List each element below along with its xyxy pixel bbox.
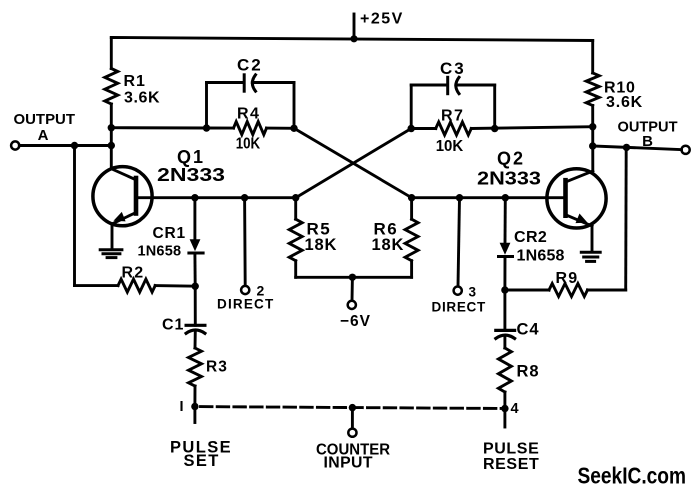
wire: pulse reset stub below node (503, 409, 506, 428)
svg-text:PULSE: PULSE (483, 441, 539, 458)
wire: C2 left lead (207, 81, 245, 84)
diode CR1 1N658 (189, 239, 203, 253)
svg-text:C2: C2 (237, 56, 263, 75)
svg-text:RESET: RESET (483, 456, 539, 473)
terminal COUNTER INPUT (348, 429, 356, 437)
label Q2 2N333 (477, 149, 541, 189)
svg-text:C1: C1 (162, 317, 184, 334)
svg-text:R3: R3 (206, 359, 228, 376)
wire: C3 right lead (456, 84, 495, 87)
ground under Q1 (100, 250, 122, 258)
wire: OUTPUT B lead (593, 146, 682, 150)
junction dot DIRECT 3 tap on Q2 base line (456, 194, 463, 201)
wire: OUTPUT A lead (19, 144, 111, 147)
capacitor C2 (244, 75, 255, 91)
wire: R2 left lead (75, 284, 119, 287)
svg-text:18K: 18K (372, 236, 405, 254)
wire: cross-coupling diagonal R4 node to Q2 base line (294, 128, 412, 197)
wire: C1 top lead (194, 286, 197, 325)
wire: -6V stub (351, 277, 354, 301)
label OUTPUT B (618, 118, 678, 150)
label 2 DIRECT (217, 283, 274, 312)
wire: R5 top lead (294, 198, 297, 220)
svg-text:OUTPUT: OUTPUT (14, 111, 76, 128)
wire: R7 right lead to R10 node (471, 127, 592, 129)
junction dot at +25V rail tap (350, 35, 357, 42)
svg-text:CR2: CR2 (514, 229, 547, 246)
wire: R4 left node up-leg (205, 83, 208, 129)
wire: link R1 node to R4 left node (111, 126, 206, 129)
label PULSE RESET (483, 441, 539, 474)
svg-text:1N658: 1N658 (517, 248, 565, 265)
wire: R4 left lead (207, 127, 234, 130)
junction dot COUNTER INPUT tap (349, 404, 356, 411)
wire: R3 bottom lead to pulse set node (193, 386, 196, 407)
label R3 (206, 359, 228, 376)
junction dot PULSE SET node 1 (191, 403, 198, 410)
junction dot output B / collector node (589, 142, 596, 149)
ground under Q2 (581, 252, 600, 261)
junction dot R4 right node (290, 125, 297, 132)
junction dot R7 left node (408, 125, 415, 132)
svg-text:C4: C4 (517, 321, 540, 339)
wire: DIRECT 3 down-leg (458, 198, 460, 286)
label -6V (340, 313, 371, 330)
svg-text:R7: R7 (441, 108, 464, 125)
svg-text:DIRECT: DIRECT (432, 300, 487, 315)
label terminal 4 (511, 401, 519, 417)
svg-text:C3: C3 (440, 59, 466, 78)
terminal OUTPUT B (682, 146, 690, 154)
label R2 (122, 265, 145, 282)
diode CR2 1N658 (499, 243, 513, 257)
resistor R9 (549, 284, 588, 297)
label C1 (162, 317, 184, 334)
svg-text:Q2: Q2 (497, 149, 525, 169)
resistor R7 (436, 122, 472, 135)
wire: C3 right node down-leg (493, 85, 496, 129)
wire: Q2 base line (412, 196, 566, 199)
wire: R5 bottom lead (294, 261, 297, 278)
label PULSE SET (170, 439, 232, 471)
wire: R10 bottom to Q2 collector (591, 106, 594, 171)
resistor R2 (118, 279, 155, 292)
wire: rail down to resistor R1 top (110, 38, 113, 69)
wire: cross-coupling diagonal R7 node to Q1 base line (296, 129, 412, 198)
wire: CR1 cathode lead (193, 253, 196, 286)
capacitor C3 (448, 77, 459, 93)
wire: R5-R6 bottom tie line (296, 276, 412, 279)
wire: Q1 emitter down-leg (111, 224, 114, 249)
junction dot output A / collector node (108, 142, 115, 149)
svg-text:R2: R2 (122, 265, 145, 282)
label COUNTER INPUT (316, 442, 391, 472)
terminal OUTPUT A (11, 141, 19, 149)
label R1 3.6K (124, 73, 161, 107)
junction dot CR2 / R9 / C4 node (501, 286, 508, 293)
wire: C1 bottom lead to R3 (194, 331, 197, 349)
svg-text:2N333: 2N333 (157, 165, 225, 185)
junction dot -6V tap (349, 274, 356, 281)
label CR1 1N658 (138, 225, 186, 260)
transistor Q1 (93, 167, 152, 226)
junction dot R10 bottom / feedback link (589, 123, 596, 130)
junction dot CR1 tap on Q1 base line (191, 194, 198, 201)
label +25V (360, 11, 404, 28)
label C2 (237, 56, 263, 75)
capacitor C4 (496, 330, 515, 338)
wire: C4 top lead (503, 290, 506, 330)
resistor R6 (405, 219, 418, 261)
wire: C2 right node down-leg (293, 83, 296, 129)
transistor Q2 (547, 169, 606, 228)
wire: R1 bottom to Q1 collector (110, 104, 113, 169)
svg-text:18K: 18K (305, 236, 338, 254)
junction dot R4 left node (203, 124, 210, 131)
label CR2 1N658 (514, 229, 565, 265)
junction dot DIRECT 2 tap on Q1 base line (241, 194, 248, 201)
resistor R10 (586, 73, 599, 106)
label R6 18K (372, 220, 405, 255)
wire: rail down to resistor R10 top (591, 41, 594, 74)
resistor R1 (105, 69, 118, 105)
svg-text:+25V: +25V (360, 11, 404, 28)
wire: +25V supply top rail (111, 38, 592, 41)
svg-text:R4: R4 (237, 106, 260, 123)
terminal DIRECT 2 (241, 286, 249, 294)
wire: CR1 anode lead (193, 198, 196, 240)
svg-text:10K: 10K (436, 138, 464, 155)
svg-text:R8: R8 (517, 363, 540, 381)
junction dot R1 bottom / feedback link (108, 124, 115, 131)
label terminal 1 (179, 399, 183, 415)
svg-text:1N658: 1N658 (138, 244, 182, 260)
wire: dashed trigger bus pulse set to pulse reset (201, 407, 505, 409)
wire: R9 left lead (505, 289, 549, 292)
svg-text:2N333: 2N333 (477, 169, 541, 189)
junction dot CR2 tap on Q2 base line (502, 194, 509, 201)
resistor R8 (498, 348, 511, 392)
junction dot R9 branch on output B line (623, 144, 630, 151)
capacitor C1 (186, 325, 205, 333)
junction dot Q1 base / R5 / diagonal node (292, 194, 299, 201)
junction dot R2 branch on output A line (71, 142, 78, 149)
wire: R7 left node up-leg (410, 85, 413, 129)
svg-text:10K: 10K (236, 136, 261, 153)
terminal -6V (348, 301, 356, 309)
svg-text:Q1: Q1 (177, 147, 205, 167)
terminal DIRECT 3 (454, 287, 462, 295)
wire: Q1 base line (136, 196, 296, 199)
label C4 (517, 321, 540, 339)
resistor R5 (289, 219, 302, 261)
wire: output B down-leg to R9 (624, 147, 627, 290)
label C3 (440, 59, 466, 78)
svg-text:I: I (179, 399, 183, 415)
svg-text:3: 3 (469, 285, 477, 300)
junction dot CR1 / R2 / C1 node (192, 283, 199, 290)
wire: R4 right lead (267, 127, 295, 130)
wire: CR2 anode lead (504, 198, 507, 243)
svg-text:DIRECT: DIRECT (217, 297, 274, 312)
label Q1 2N333 (157, 147, 225, 185)
label R10 3.6K (604, 80, 643, 112)
junction dot Q2 base / R6 / diagonal node (408, 194, 415, 201)
watermark SeekIC.com (578, 463, 687, 489)
label R5 18K (305, 220, 338, 255)
svg-text:SET: SET (184, 452, 220, 470)
svg-text:3.6K: 3.6K (124, 90, 160, 107)
label R9 (556, 270, 579, 287)
wire: C4 bottom lead to R8 (503, 336, 506, 348)
wire: R7 left lead (411, 127, 436, 130)
wire: DIRECT 2 down-leg (243, 198, 246, 286)
wire: R2 right lead to CR1/C1 node (155, 284, 195, 288)
label 3 DIRECT (432, 285, 487, 315)
label R4 10K (236, 106, 261, 153)
wire: counter input stub (351, 408, 354, 429)
wire: C2 right lead (252, 81, 294, 84)
wire: pulse set stub below node (193, 407, 196, 423)
label R7 10K (436, 108, 465, 155)
wire: Q2 emitter down-leg (591, 226, 594, 252)
label OUTPUT A (14, 111, 76, 144)
svg-text:3.6K: 3.6K (606, 94, 643, 111)
node +25V supply terminal stub (353, 14, 356, 39)
svg-text:INPUT: INPUT (324, 455, 373, 472)
wire: CR2 cathode lead (503, 257, 506, 291)
wire: output A down-leg to R2 (73, 146, 76, 286)
svg-text:R9: R9 (556, 270, 579, 287)
wire: C3 left lead (411, 84, 447, 87)
junction dot R7 right node (491, 125, 498, 132)
svg-text:4: 4 (511, 401, 519, 417)
wire: R9 right lead (588, 289, 626, 292)
wire: R8 bottom lead to pulse reset node (503, 392, 506, 409)
label R8 (517, 363, 540, 381)
svg-text:SeekIC.com: SeekIC.com (578, 463, 687, 489)
svg-text:A: A (38, 127, 49, 144)
wire: R6 top lead (410, 198, 413, 220)
svg-text:−6V: −6V (340, 313, 371, 330)
wire: R6 bottom lead (410, 261, 413, 278)
svg-text:R1: R1 (124, 73, 146, 90)
svg-text:CR1: CR1 (153, 225, 186, 242)
junction dot PULSE RESET node 4 (501, 405, 508, 412)
resistor R3 (189, 348, 202, 386)
resistor R4 (234, 122, 267, 135)
